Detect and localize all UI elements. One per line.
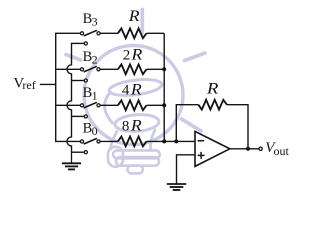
wire to inverting input bbox=[164, 140, 195, 142]
wire Vref bus (left vertical) bbox=[55, 33, 58, 141]
svg-text:4: 4 bbox=[122, 83, 130, 99]
wire ground bus (inner vertical with hops) bbox=[67, 43, 72, 152]
switch B2 bbox=[56, 66, 100, 82]
label R (bit 3) bbox=[128, 8, 140, 25]
svg-text:1: 1 bbox=[92, 89, 98, 103]
label B3 bbox=[83, 11, 98, 29]
svg-text:R: R bbox=[130, 82, 142, 99]
svg-text:R: R bbox=[128, 8, 140, 25]
switch B3 bbox=[56, 30, 100, 45]
node junction bit2 bbox=[162, 67, 166, 71]
label B1 bbox=[83, 85, 98, 103]
svg-text:3: 3 bbox=[92, 15, 98, 29]
wire feedback down to output bbox=[227, 105, 248, 149]
wire summing bus (right vertical) bbox=[163, 33, 165, 141]
resistor 2R (bit 2) bbox=[100, 64, 164, 74]
ground (left) bbox=[62, 152, 81, 169]
label Vref bbox=[13, 76, 35, 93]
node junction bit1 bbox=[162, 103, 166, 107]
svg-text:2: 2 bbox=[92, 52, 98, 66]
label 2R bbox=[123, 46, 143, 63]
ground (op-amp +) bbox=[167, 184, 186, 190]
label 8R bbox=[122, 117, 142, 134]
resistor R (bit 3) bbox=[100, 28, 164, 38]
label Vout bbox=[265, 140, 289, 158]
wire feedback up bbox=[176, 105, 198, 142]
svg-text:R: R bbox=[130, 46, 142, 63]
svg-text:ref: ref bbox=[22, 78, 35, 92]
terminal Vout bbox=[259, 147, 262, 150]
watermark lightbulb doodle bbox=[66, 10, 205, 174]
svg-text:8: 8 bbox=[122, 118, 129, 134]
wire non-inverting input bbox=[177, 155, 196, 184]
wire output bbox=[230, 148, 259, 150]
switch B0 bbox=[56, 138, 100, 153]
resistor 4R (bit 1) bbox=[100, 100, 164, 110]
svg-text:R: R bbox=[130, 117, 142, 134]
node output junction bbox=[246, 147, 250, 151]
op-amp U1 bbox=[195, 131, 230, 166]
svg-text:R: R bbox=[206, 80, 219, 97]
label B0 bbox=[83, 120, 98, 138]
node junction bit0 bbox=[162, 139, 166, 143]
label R (feedback) bbox=[206, 80, 219, 97]
svg-text:0: 0 bbox=[92, 124, 98, 138]
resistor R (feedback) bbox=[198, 100, 227, 110]
wire Vref to bus bbox=[40, 83, 56, 85]
switch B1 bbox=[56, 102, 100, 118]
label B2 bbox=[83, 49, 98, 66]
svg-text:2: 2 bbox=[123, 47, 131, 63]
resistor 8R (bit 0) bbox=[100, 137, 164, 147]
node feedback tap bbox=[174, 139, 178, 143]
svg-text:out: out bbox=[274, 144, 290, 158]
label 4R bbox=[122, 82, 142, 99]
